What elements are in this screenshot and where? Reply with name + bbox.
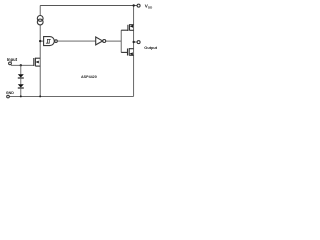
arrow Q3 [36, 61, 39, 64]
wire bottom GND rail [9, 95, 133, 97]
diode D2 [18, 84, 24, 87]
junction dot diode D2 / GND rail [20, 95, 22, 97]
wire diode D1 to diode D2 [20, 78, 22, 84]
junction dot output node [133, 41, 135, 43]
current source I1 (double circle) [37, 16, 43, 25]
wire VDD top rail [40, 5, 137, 7]
svg-text:ASP4420: ASP4420 [81, 75, 97, 79]
diode D1 [18, 74, 24, 77]
Output pin terminal [137, 41, 140, 44]
transistor Q2 NMOS (low side) [121, 48, 133, 55]
svg-text:DD: DD [148, 5, 152, 9]
wire input pin to input FET gate [11, 64, 34, 66]
svg-text:Output: Output [144, 45, 157, 50]
wire left vertical from rail to current source [39, 6, 41, 16]
svg-text:GND: GND [6, 91, 14, 95]
junction dot NAND input / current source node [39, 40, 41, 42]
wire inverter output to gate line [106, 40, 121, 42]
GND pin terminal [7, 95, 10, 98]
VDD pin terminal [137, 4, 140, 7]
inverter U2 [96, 37, 106, 45]
wire current source to input node / NAND input junction / input FET drain-source conductor [39, 25, 41, 97]
wire NAND input stub [40, 40, 43, 42]
transistor Q1 PMOS (high side) [121, 24, 133, 31]
wire NAND output to inverter input [57, 40, 95, 42]
wire output node to output pin [134, 41, 137, 43]
junction dot VDD rail / PMOS source [133, 4, 135, 6]
schmitt NAND gate U1 [44, 37, 58, 46]
wire right vertical VDD to PMOS to output node to NMOS to GND [133, 6, 135, 97]
svg-text:Input: Input [7, 57, 18, 62]
junction dot input / diode anode [20, 64, 22, 66]
arrow Q1 source [130, 25, 133, 28]
arrow Q2 source [129, 52, 132, 55]
transistor Q3 input NMOS [34, 58, 40, 66]
wire gate vertical line PMOS gate to NMOS gate [120, 30, 122, 52]
wire diode D2 to GND rail [20, 88, 22, 97]
Input pin terminal [9, 62, 12, 65]
wire input junction to diode D1 [20, 65, 22, 74]
junction dot input FET source / GND rail [39, 95, 41, 97]
